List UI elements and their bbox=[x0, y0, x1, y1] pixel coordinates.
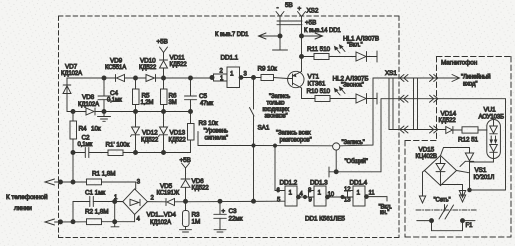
svg-text:"Уровень: "Уровень bbox=[204, 129, 228, 135]
wire R1 to bridge pin3 bbox=[102, 182, 136, 189]
node: junction C5 bottom / R8 top bbox=[189, 110, 193, 114]
diode VD11 with +5V arrow bbox=[157, 39, 188, 79]
node: battery plus / rail bbox=[300, 34, 304, 38]
svg-text:R5: R5 bbox=[142, 93, 151, 100]
svg-text:12: 12 bbox=[344, 187, 351, 193]
node: DD1.1 input fork bbox=[210, 76, 214, 80]
svg-text:КД522: КД522 bbox=[169, 138, 187, 144]
node: border crossing b bbox=[59, 220, 63, 224]
logic element DD1.2 bbox=[277, 180, 304, 207]
svg-text:КД522: КД522 bbox=[141, 138, 159, 144]
wire VU1 bottom to VS1 cathode bbox=[470, 161, 494, 163]
svg-text:R1 1,8М: R1 1,8М bbox=[92, 171, 115, 178]
svg-text:HL2 АЛ307Б: HL2 АЛ307Б bbox=[333, 76, 369, 83]
diode VD8 bbox=[78, 94, 99, 115]
svg-text:Магнитофон: Магнитофон bbox=[441, 60, 478, 67]
resistor R9 bbox=[258, 66, 278, 81]
LED HL1 bbox=[329, 36, 379, 63]
wire control return to riser bbox=[470, 189, 506, 191]
svg-text:КС191Ж: КС191Ж bbox=[157, 191, 180, 197]
svg-text:"Линейный: "Линейный bbox=[461, 74, 491, 81]
ground under C4 bbox=[98, 112, 111, 122]
node: junction C4 bottom bbox=[102, 110, 106, 114]
svg-text:+5В: +5В bbox=[157, 39, 168, 46]
wire общий to XS1 row3 riser bbox=[380, 99, 382, 172]
svg-text:"Общий": "Общий" bbox=[345, 158, 368, 165]
svg-text:VD10: VD10 bbox=[140, 58, 156, 65]
wire to DD1 pin14 (right arrow) bbox=[302, 28, 342, 39]
wire phone line a with arrow bbox=[45, 179, 87, 185]
svg-text:R6: R6 bbox=[169, 93, 178, 100]
connector XS2 pin - (fork up) bbox=[276, 5, 284, 50]
svg-text:VD8: VD8 bbox=[82, 94, 95, 101]
svg-text:КД102А: КД102А bbox=[150, 220, 171, 226]
svg-text:22мк: 22мк bbox=[229, 216, 243, 223]
svg-text:"Звонок": "Звонок" bbox=[341, 83, 364, 89]
svg-text:R3 10к: R3 10к bbox=[199, 120, 219, 127]
LED HL2 bbox=[330, 76, 377, 105]
wire jack to XS1 row2 riser bbox=[340, 78, 373, 146]
node: junction VD8 rail / R4 bbox=[71, 110, 75, 114]
tape recorder dashed border (Магнитофон box) bbox=[405, 57, 511, 238]
svg-text:КС551А: КС551А bbox=[105, 65, 126, 71]
wire bridge right corner to VS1 cathode line bbox=[457, 171, 470, 173]
svg-text:КД522: КД522 bbox=[139, 65, 157, 71]
wire XS1 row3 bbox=[389, 129, 446, 131]
diode bridge VD15 bbox=[416, 147, 457, 186]
wire XS1 row2 bbox=[381, 98, 506, 100]
node: junction VD13 bottom bbox=[162, 151, 166, 155]
node: DD1.3 input fork bbox=[303, 195, 306, 198]
svg-text:VD9: VD9 bbox=[110, 58, 123, 65]
svg-text:+5В: +5В bbox=[305, 20, 316, 27]
svg-text:VD15: VD15 bbox=[419, 147, 435, 154]
node: battery minus / rail bbox=[278, 34, 282, 38]
wire phone line b with arrow bbox=[45, 219, 87, 225]
ground under C3 bbox=[214, 230, 226, 232]
svg-text:DD1 К561ЛЕ5: DD1 К561ЛЕ5 bbox=[305, 216, 345, 223]
svg-text:VS1: VS1 bbox=[475, 167, 487, 174]
svg-text:только: только bbox=[267, 101, 286, 107]
node: junction C3 bbox=[218, 199, 222, 203]
node: junction C5 top bbox=[189, 76, 193, 80]
wire C1 branch bbox=[73, 201, 90, 203]
svg-text:VD12: VD12 bbox=[142, 130, 158, 137]
node: junction SA1 bottom bbox=[252, 199, 256, 203]
wire R2 to bridge pin4 bbox=[102, 221, 135, 223]
svg-text:КД522: КД522 bbox=[439, 118, 457, 124]
node: SA1 / запись wire junction bbox=[252, 144, 255, 147]
svg-text:R3: R3 bbox=[192, 212, 201, 219]
resistor R2 bbox=[85, 209, 108, 225]
annotation к телефонной линии bbox=[6, 193, 48, 212]
wire y152.5 bbox=[73, 152, 85, 154]
resistor R10 bbox=[307, 88, 331, 102]
svg-text:13: 13 bbox=[344, 198, 351, 204]
node: DD1.4 input fork bbox=[341, 195, 344, 198]
svg-text:К выв.14 DD1: К выв.14 DD1 bbox=[304, 28, 341, 34]
node: общий junction bbox=[334, 170, 338, 174]
wire R4 branch vertical bbox=[72, 112, 74, 122]
wire запись to jack bbox=[254, 145, 333, 147]
resistor R6 bbox=[161, 78, 178, 112]
wire R9 to VT1 base bbox=[274, 78, 288, 79]
node: junction R4 / C2 bbox=[71, 151, 75, 155]
svg-text:КТ361: КТ361 bbox=[308, 81, 326, 88]
svg-text:кн.": кн." bbox=[380, 210, 389, 216]
diode VD10 bbox=[139, 58, 157, 82]
node: junction VD12 bottom bbox=[134, 151, 138, 155]
svg-text:1: 1 bbox=[318, 190, 322, 197]
pin contacts row3 bbox=[404, 126, 408, 133]
svg-text:SA1: SA1 bbox=[258, 125, 270, 132]
node: junction R5 top bbox=[134, 76, 138, 80]
optocoupler VU1 АОУ103Б bbox=[479, 107, 505, 163]
node: junction C4 top bbox=[102, 76, 106, 80]
svg-text:47мк: 47мк bbox=[200, 101, 213, 107]
svg-text:3М: 3М bbox=[169, 100, 177, 106]
diode bridge VD1...VD4 bbox=[114, 180, 176, 227]
svg-text:VT1: VT1 bbox=[308, 74, 320, 81]
ground under R3 bbox=[180, 230, 192, 232]
svg-text:линии: линии bbox=[14, 205, 32, 212]
wire DD1.3 out to DD1.4 bbox=[329, 196, 353, 198]
resistor R3 1M bbox=[183, 201, 201, 229]
svg-text:вход": вход" bbox=[463, 82, 477, 88]
svg-text:HL1 АЛ307В: HL1 АЛ307В bbox=[343, 36, 379, 43]
svg-text:VD6: VD6 bbox=[192, 178, 205, 185]
svg-text:+: + bbox=[298, 6, 302, 13]
node: junction VD13 top bbox=[162, 110, 166, 114]
node: R11 tap bbox=[300, 55, 304, 59]
fuse F1 link bbox=[432, 223, 474, 231]
svg-text:входящих: входящих bbox=[263, 107, 290, 113]
svg-text:5В: 5В bbox=[285, 2, 293, 9]
svg-text:VD1...VD4: VD1...VD4 bbox=[147, 212, 177, 219]
svg-text:ХS2: ХS2 bbox=[307, 8, 319, 15]
wire VT1 collector to R10 bbox=[302, 88, 316, 99]
svg-text:R9 10к: R9 10к bbox=[258, 66, 278, 73]
annotation запись всех разговоров bbox=[276, 131, 312, 144]
wire общий with terminal bar bbox=[329, 158, 381, 177]
node: DD1.2 pin6 branch bbox=[273, 144, 276, 147]
svg-text:1М: 1М bbox=[192, 219, 201, 226]
wire DD1.4 output to вкл. кн. bbox=[368, 197, 387, 201]
svg-text:АОУ103Б: АОУ103Б bbox=[479, 115, 505, 121]
node: junction VD6/R3 bbox=[184, 199, 188, 203]
capacitor C1 bbox=[85, 190, 123, 207]
common terminal bar bbox=[273, 49, 288, 51]
svg-text:-: - bbox=[277, 5, 279, 12]
wire bottom rail y111.5 bbox=[67, 111, 86, 113]
node: border crossing a bbox=[59, 180, 63, 184]
diode VD14 bbox=[439, 111, 463, 134]
logic element DD1.3 bbox=[308, 180, 335, 207]
wire x73 from C2 down to line a bbox=[72, 153, 74, 183]
battery plates bbox=[277, 20, 302, 22]
annotation: уровень сигнала with pointer bbox=[198, 129, 254, 146]
wire jack sleeve down bbox=[335, 150, 337, 172]
logic element DD1.4 bbox=[344, 180, 375, 207]
main device dashed border bbox=[59, 16, 400, 238]
svg-text:R4: R4 bbox=[79, 126, 88, 133]
svg-text:+5В: +5В bbox=[180, 157, 191, 164]
node: junction SA1 branch bbox=[252, 76, 256, 80]
svg-text:К выв.7 DD1: К выв.7 DD1 bbox=[215, 32, 249, 38]
switch Сеть (push type, dual) bbox=[416, 198, 477, 223]
resistor R11 bbox=[302, 46, 331, 60]
svg-text:КД522: КД522 bbox=[170, 62, 188, 68]
svg-text:КД522: КД522 bbox=[192, 186, 210, 192]
svg-text:КД102А: КД102А bbox=[61, 71, 82, 77]
resistor R5 bbox=[133, 78, 154, 112]
svg-text:1: 1 bbox=[289, 190, 293, 197]
diode VD7 bbox=[61, 64, 82, 94]
svg-text:VD13: VD13 bbox=[170, 130, 186, 137]
node: junction x73 line b bbox=[71, 220, 75, 224]
jack "Запись" (circle) bbox=[333, 140, 365, 150]
svg-text:+: + bbox=[222, 209, 226, 215]
svg-text:VD7: VD7 bbox=[65, 64, 78, 71]
thyristor VS1 bbox=[441, 148, 495, 191]
node: VS1 cathode / control return bbox=[468, 188, 472, 192]
node: junction x73 line a bbox=[71, 180, 75, 184]
annotation: запись только входящих звонков bbox=[263, 94, 291, 120]
wire top rail y78 bbox=[67, 78, 104, 112]
switch SA1 bbox=[250, 78, 270, 202]
svg-text:C3: C3 bbox=[229, 208, 238, 215]
svg-text:0,1мк: 0,1мк bbox=[107, 98, 122, 104]
svg-text:R2 1,8М: R2 1,8М bbox=[85, 209, 108, 216]
wire bridge pin1 stub bbox=[115, 201, 123, 203]
wire линейный вход arrow bbox=[443, 74, 491, 88]
svg-text:VD14: VD14 bbox=[441, 111, 457, 118]
svg-text:C5: C5 bbox=[199, 93, 208, 100]
svg-text:1: 1 bbox=[230, 71, 234, 78]
svg-text:"Вкл.": "Вкл." bbox=[347, 43, 363, 49]
svg-text:0,1мк: 0,1мк bbox=[78, 142, 93, 148]
zener VD9 bbox=[105, 58, 126, 82]
svg-text:C2: C2 bbox=[82, 135, 91, 142]
node: junction VD11/R6 bbox=[162, 76, 166, 80]
svg-text:DD1.2: DD1.2 bbox=[280, 180, 298, 187]
transistor VT1 КТ361 bbox=[288, 71, 326, 88]
wire to DD1 pin7 (left arrow) bbox=[215, 32, 280, 39]
svg-text:1,2М: 1,2М bbox=[141, 100, 154, 106]
svg-text:разговоров": разговоров" bbox=[280, 138, 312, 144]
svg-text:VU1: VU1 bbox=[484, 107, 497, 114]
svg-text:звонков": звонков" bbox=[265, 114, 288, 120]
svg-text:R12 51: R12 51 bbox=[458, 137, 479, 144]
zener VD12 bbox=[131, 112, 159, 153]
pin contacts row2 bbox=[404, 95, 408, 102]
node: junction VD12 top bbox=[134, 110, 138, 114]
resistor R1' 100k bbox=[106, 142, 130, 156]
svg-text:1: 1 bbox=[357, 190, 361, 197]
pin contacts row1 bbox=[404, 75, 408, 82]
capacitor C4 bbox=[98, 78, 122, 112]
svg-text:F1: F1 bbox=[466, 223, 474, 229]
wire DD1.2 pin6 riser bbox=[275, 146, 285, 191]
svg-text:DD1.4: DD1.4 bbox=[350, 180, 368, 187]
svg-text:R10 510: R10 510 bbox=[307, 88, 331, 95]
svg-text:К телефонной: К телефонной bbox=[6, 193, 48, 201]
resistor R1 bbox=[87, 171, 116, 185]
svg-text:КУ201Л: КУ201Л bbox=[474, 175, 495, 181]
svg-text:11: 11 bbox=[369, 191, 376, 197]
svg-text:"Сеть": "Сеть" bbox=[434, 198, 451, 204]
svg-text:DD1.3: DD1.3 bbox=[310, 180, 328, 187]
svg-text:C1 1мк: C1 1мк bbox=[85, 190, 105, 197]
svg-text:DD1.1: DD1.1 bbox=[221, 55, 239, 62]
svg-text:сигнала": сигнала" bbox=[205, 136, 228, 142]
capacitor C3 electrolytic bbox=[214, 201, 243, 229]
wire mains left with down arrow bbox=[419, 171, 425, 204]
svg-text:R11 510: R11 510 bbox=[307, 46, 331, 53]
svg-text:"Запись: "Запись bbox=[269, 94, 290, 100]
node: junction C1/R2 riser bbox=[113, 200, 117, 204]
zener VD5 bbox=[147, 183, 285, 206]
diode VD6 with +5V arrow bbox=[180, 157, 210, 201]
svg-text:КЦ402В: КЦ402В bbox=[416, 154, 437, 160]
resistor R12 bbox=[458, 127, 487, 144]
wire DD1.2 out to DD1.3 bbox=[300, 196, 314, 198]
connector XS1 housing lines bbox=[388, 78, 390, 130]
svg-text:R1' 100к: R1' 100к bbox=[106, 142, 130, 149]
wire DD1.1 output bbox=[243, 77, 261, 79]
resistor R4 bbox=[70, 121, 101, 153]
wire XS1 row1 bbox=[373, 77, 443, 79]
wire row2 right riser bbox=[505, 99, 507, 190]
svg-text:VD5: VD5 bbox=[160, 183, 173, 190]
op-amp element DD1.1 (logic inverter) bbox=[214, 55, 248, 88]
zener VD13 bbox=[159, 112, 187, 153]
svg-text:10к: 10к bbox=[91, 126, 101, 133]
svg-text:VD11: VD11 bbox=[170, 55, 186, 62]
svg-text:"Запись всех: "Запись всех bbox=[276, 131, 311, 137]
capacitor C2 bbox=[78, 135, 93, 158]
wire mains right with down arrow bbox=[441, 185, 466, 203]
connector XS2 pin + (fork up) bbox=[298, 6, 306, 72]
wire bridge pin4 stub bbox=[134, 214, 136, 221]
svg-text:ХS1: ХS1 bbox=[385, 70, 397, 77]
resistor R8 10k (trimmer "уровень сигнала") bbox=[188, 112, 219, 153]
capacitor C5 bbox=[185, 78, 214, 112]
svg-text:КД102А: КД102А bbox=[78, 102, 99, 108]
svg-text:C4: C4 bbox=[110, 90, 119, 97]
